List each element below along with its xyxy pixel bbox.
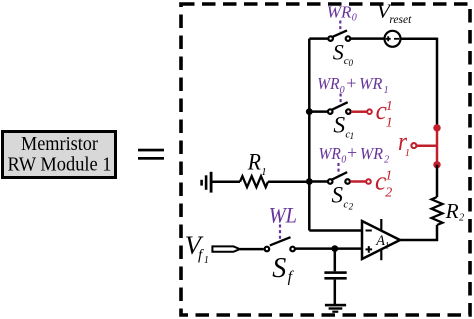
wire: right vertical upper (black) [436, 38, 439, 128]
label Sf [272, 253, 294, 286]
svg-text:WR: WR [319, 144, 341, 163]
svg-text:2: 2 [459, 213, 464, 224]
switch Sc1 [328, 102, 351, 114]
label WL [269, 202, 297, 227]
wire: red Sc2 to c2 terminal [350, 180, 366, 183]
svg-text:2: 2 [385, 185, 392, 200]
wire: red memristor segment [436, 128, 439, 165]
svg-text:A: A [375, 233, 385, 249]
svg-text:1: 1 [405, 148, 410, 159]
svg-text:1: 1 [386, 99, 393, 114]
wire: R1 to bus junction [268, 180, 309, 183]
svg-text:0: 0 [349, 58, 354, 68]
label r1 [398, 127, 410, 159]
svg-text:WL: WL [269, 202, 297, 227]
svg-text:reset: reset [389, 14, 412, 26]
wire: bus corner to op-amp minus input [309, 229, 362, 232]
wire: ground to R1 [212, 180, 240, 183]
equals sign [138, 149, 164, 160]
node: red junction top [433, 124, 440, 131]
svg-text:+: + [347, 143, 357, 163]
wire: bus to Sc1 [309, 110, 327, 113]
wire: left vertical bus [308, 39, 311, 231]
svg-text:1: 1 [386, 115, 393, 130]
label Vf1 [185, 231, 209, 266]
svg-text:R: R [445, 199, 459, 223]
svg-text:Memristor: Memristor [21, 133, 98, 155]
node: junction row Sc1 [306, 108, 313, 115]
label c1 super1 [376, 96, 393, 130]
terminal Vf1 pointer [212, 246, 239, 251]
svg-text:+: + [346, 73, 356, 93]
label WR0 [327, 3, 357, 24]
svg-text:2: 2 [384, 155, 389, 166]
wire: bus to Sc2 [309, 180, 327, 183]
node c2 terminal [366, 179, 371, 184]
label c2 super1 [375, 166, 392, 200]
svg-text:1: 1 [385, 169, 392, 184]
wire: red stub to r1 terminal [417, 144, 437, 147]
svg-text:R: R [247, 149, 261, 175]
wire: R2 to op-amp output [399, 225, 437, 240]
svg-text:WR: WR [359, 74, 382, 93]
wire: junction to capacitor [334, 249, 337, 272]
node: capacitor junction [331, 245, 338, 252]
svg-text:1: 1 [385, 241, 390, 251]
label Sc2 [332, 182, 354, 211]
svg-text:1: 1 [204, 255, 209, 266]
svg-text:S: S [333, 39, 344, 64]
control dashed line WR0+WR1 [340, 94, 342, 106]
wire: Sc0 to Vreset [351, 37, 385, 40]
svg-text:1: 1 [384, 85, 389, 96]
ground left [200, 172, 212, 193]
resistor R2 [432, 197, 443, 225]
svg-text:1: 1 [350, 131, 355, 141]
capacitor C [324, 271, 346, 279]
label WR0+WR2 [319, 143, 390, 166]
svg-text:RW Module 1: RW Module 1 [8, 154, 112, 176]
dashed border frame [181, 4, 470, 315]
svg-text:0: 0 [352, 13, 357, 24]
switch Sc0 [328, 30, 350, 40]
switch Sc2 [328, 172, 350, 184]
control dashed line WR0+WR2 [337, 163, 339, 175]
svg-text:S: S [333, 112, 345, 138]
control dashed line WR0 [339, 21, 341, 33]
wire: right vertical to R2 [436, 165, 439, 197]
wire: capacitor to ground [334, 280, 337, 304]
svg-text:1: 1 [261, 166, 267, 178]
label R1 [247, 149, 267, 178]
svg-text:WR: WR [360, 144, 383, 163]
svg-text:2: 2 [349, 201, 354, 211]
label Sc0 [333, 39, 354, 68]
control dashed line WL [279, 225, 281, 242]
wire: Vf1 to switch Sf [240, 248, 264, 251]
wire: Sf to op-amp plus input [295, 247, 362, 250]
label Sc1 [333, 112, 354, 141]
wire: red Sc1 to c1 terminal [351, 110, 367, 113]
svg-text:S: S [332, 182, 344, 207]
switch Sf [265, 237, 295, 251]
label R2 [445, 199, 464, 224]
label WR0+WR1 [317, 73, 388, 96]
label Vreset [377, 1, 412, 26]
svg-text:WR: WR [327, 3, 352, 22]
node: junction row Sc2 [306, 178, 313, 185]
svg-text:WR: WR [317, 74, 339, 93]
svg-text:S: S [272, 253, 286, 284]
svg-text:0: 0 [340, 85, 345, 96]
node c1 terminal [367, 109, 372, 114]
voltage source Vreset [385, 31, 401, 47]
node r1 terminal [411, 143, 416, 148]
node: red junction bottom [433, 161, 440, 168]
op-amp A1 [362, 219, 400, 260]
wire: top row to switch Sc0 [309, 37, 328, 40]
module box Memristor RW Module 1 [3, 132, 116, 178]
wire: Vreset to right side [401, 38, 438, 41]
resistor R1 [240, 176, 268, 187]
ground bottom [325, 304, 346, 313]
svg-text:0: 0 [341, 155, 346, 166]
